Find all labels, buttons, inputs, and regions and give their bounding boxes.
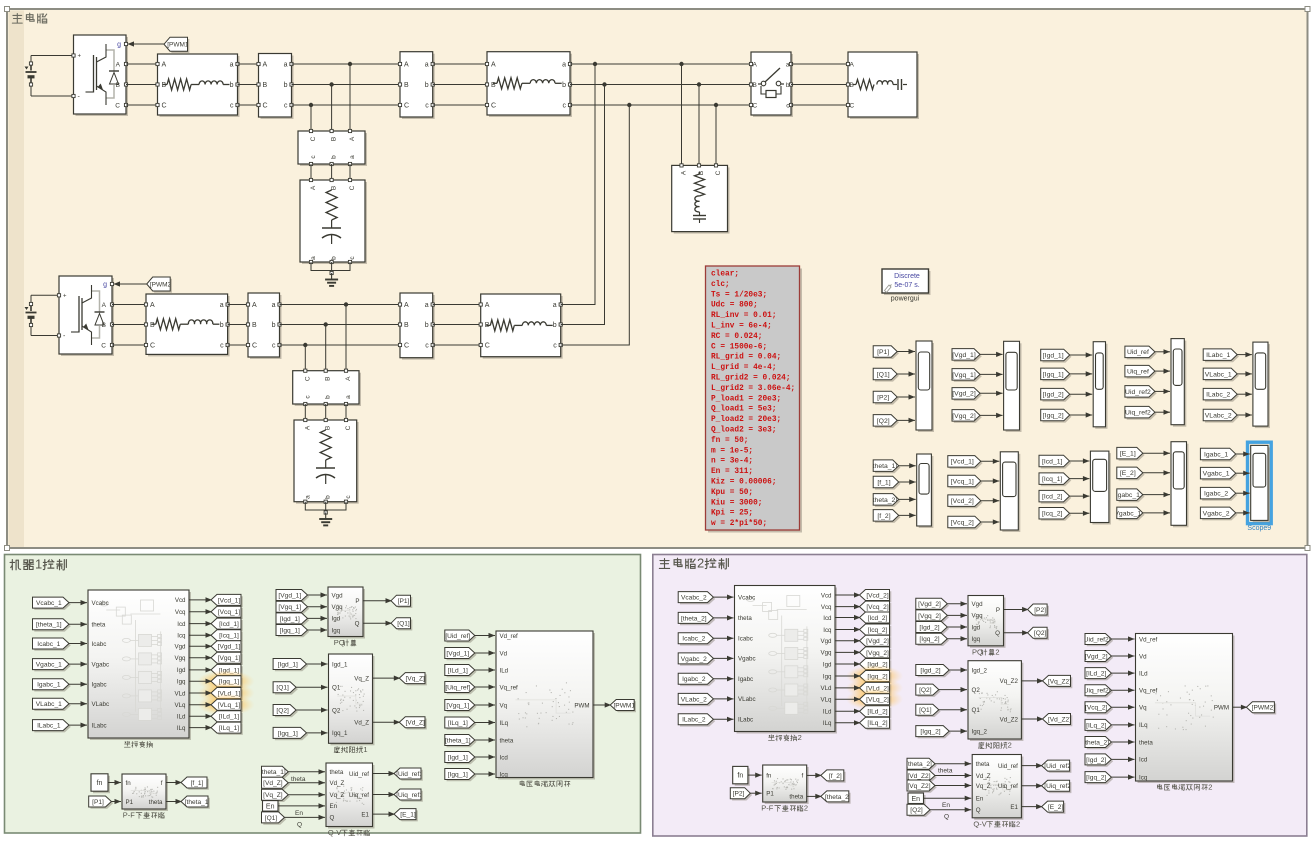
wire [Igd_2] [1111, 758, 1134, 760]
From tag [Q2] [275, 706, 298, 717]
Goto tag [Vq_Z2] [1044, 677, 1072, 688]
From tag VLabc_1 [34, 700, 71, 711]
wire to [Uiq_ref1] [373, 794, 396, 796]
svg-text:[Vq_Z2]: [Vq_Z2] [907, 783, 930, 790]
wire [theta_1] [475, 739, 495, 741]
svg-text:[Vd_Z]: [Vd_Z] [263, 780, 283, 787]
wire [Q2] [296, 709, 327, 711]
svg-text:ILd: ILd [1139, 670, 1148, 677]
svg-text:Vgq: Vgq [174, 655, 186, 662]
svg-text:[Icq_2]: [Icq_2] [1042, 511, 1063, 518]
svg-text:2: 2 [804, 804, 808, 813]
grid equivalent series RLC block [850, 54, 919, 119]
svg-text:[Vq_Z]: [Vq_Z] [405, 676, 425, 683]
wire to [VLd_2] [835, 687, 861, 689]
wire [Vgq_1] to scope [980, 373, 1003, 375]
svg-text:Vd: Vd [500, 650, 508, 657]
svg-text:B: B [331, 186, 338, 190]
Goto tag [ILd_2] [861, 708, 891, 719]
From tag [Vgd_1] [278, 591, 310, 602]
Goto tag [Vcd_1] [213, 596, 243, 607]
svg-text:b: b [325, 395, 332, 399]
svg-text:En: En [295, 810, 303, 817]
svg-text:2: 2 [1008, 741, 1012, 750]
From tag [Igd_2] [918, 666, 951, 677]
svg-text:Igq: Igq [332, 627, 341, 634]
three-phase series RL branch row2 [148, 296, 230, 356]
svg-text:[Vgd_2]: [Vgd_2] [866, 638, 889, 645]
Goto tag [Vcq_2] [861, 603, 891, 614]
From tag Vgabc_1 [34, 660, 71, 671]
svg-text:[ILd_2]: [ILd_2] [1086, 671, 1106, 678]
svg-text:C: C [485, 343, 490, 350]
wire fn [108, 782, 121, 784]
svg-text:VLabc: VLabc [92, 701, 110, 708]
From tag PWM1 [128, 43, 165, 45]
svg-text:RC = 0.024;: RC = 0.024; [711, 333, 762, 341]
svg-text:[Uid_ref]: [Uid_ref] [445, 633, 470, 640]
scope group Load abc [1255, 344, 1270, 428]
Goto tag [P1] [393, 597, 413, 608]
svg-text:b: b [230, 82, 234, 89]
three-phase V-I measurement row2 [250, 295, 282, 359]
svg-text:b: b [272, 322, 276, 329]
svg-text:A: A [150, 302, 155, 309]
svg-text:Vd_Z: Vd_Z [330, 780, 345, 787]
From tag VLabc_1 [1205, 370, 1239, 382]
svg-text:[theta_2]: [theta_2] [906, 761, 932, 768]
wire [Uiq_ref] [475, 686, 495, 688]
wire to [Igq_2] [835, 675, 861, 677]
svg-text:Icd: Icd [823, 615, 832, 622]
wire [Igq_2] to scope [1070, 414, 1093, 416]
From tag [ILq_1] [447, 719, 477, 730]
svg-text:A: A [485, 302, 490, 309]
wire ILabc_2 to scope [1237, 393, 1252, 395]
svg-text:powergui: powergui [891, 296, 920, 303]
wire to [f_2] [807, 774, 822, 776]
From tag [f_1] [875, 478, 901, 490]
From tag [Igq_1] [275, 729, 308, 740]
wire fn2 [748, 774, 762, 776]
wire to [P1] [363, 600, 392, 602]
Goto tag [Vcq_1] [213, 608, 243, 619]
From tag [Q2] [909, 806, 932, 817]
svg-text:B: B [753, 82, 757, 89]
svg-text:Vq_Z: Vq_Z [354, 675, 369, 682]
svg-text:Vq_Z: Vq_Z [976, 783, 991, 790]
svg-text:Vgabc_2: Vgabc_2 [681, 656, 707, 663]
scope group E/abc [1173, 444, 1189, 528]
svg-text:C: C [162, 103, 167, 110]
wire to [Icq_1] [189, 634, 212, 636]
scope group Scope9 [1248, 442, 1272, 523]
wire [Vgd_2] to scope [980, 392, 1003, 394]
svg-text:Q1: Q1 [972, 707, 981, 714]
svg-text:C: C [715, 170, 722, 175]
From tag Vgabc_1 [1202, 469, 1237, 481]
svg-text:Vgd: Vgd [332, 592, 344, 599]
svg-text:C: C [349, 185, 356, 190]
wire [P2] to scope [897, 396, 915, 398]
wire Vgabc_1 [69, 663, 87, 665]
svg-text:En = 311;: En = 311; [711, 468, 753, 476]
svg-text:c: c [563, 103, 567, 110]
svg-text:Igabc_2: Igabc_2 [682, 676, 706, 683]
wire [f_1] to scope [899, 481, 916, 483]
svg-text:[f_1]: [f_1] [191, 780, 204, 787]
svg-text:A: A [850, 62, 855, 69]
svg-text:Igabc: Igabc [738, 676, 753, 683]
wire to [ILq_2] [835, 722, 861, 724]
wire [Q1] [296, 686, 327, 688]
svg-text:ILq: ILq [1139, 722, 1148, 729]
svg-text:clear;: clear; [711, 271, 739, 279]
svg-text:Discrete: Discrete [894, 273, 920, 280]
svg-text:theta: theta [92, 622, 106, 629]
svg-text:b: b [284, 82, 288, 89]
svg-text:ILd: ILd [500, 667, 509, 674]
svg-text:C: C [263, 103, 268, 110]
svg-text:Vq_ref: Vq_ref [500, 684, 519, 691]
svg-text:[PWM1]: [PWM1] [167, 42, 190, 49]
svg-text:Vgq: Vgq [972, 613, 984, 620]
From tag Igabc_1 [1202, 450, 1237, 462]
svg-text:ILq: ILq [823, 720, 832, 727]
svg-text:c: c [425, 103, 429, 110]
Goto tag [VLq_1] [213, 701, 243, 712]
inverter (IGBT bridge) row1 [76, 37, 129, 116]
Goto tag [Uid_ref2] [1043, 762, 1071, 773]
svg-text:[Igq_1]: [Igq_1] [278, 730, 298, 737]
svg-text:a: a [425, 302, 429, 309]
svg-text:[Q1]: [Q1] [276, 685, 289, 692]
svg-text:VLq: VLq [174, 702, 186, 709]
svg-text:Vcabc_1: Vcabc_1 [36, 600, 62, 607]
svg-text:[theta_2]: [theta_2] [871, 497, 898, 504]
svg-text:Vq_ref: Vq_ref [1139, 688, 1158, 695]
panel 主电路2控制 (circuit 2 control area) [653, 555, 1307, 837]
svg-text:ILabc_2: ILabc_2 [682, 717, 706, 724]
From tag [E_1] [1119, 449, 1145, 461]
wire to [PWM2] [1233, 706, 1248, 708]
svg-text:Vgabc_1: Vgabc_1 [36, 662, 62, 669]
From tag [ILd_2] [1087, 669, 1113, 680]
svg-text:[Vgd_2]: [Vgd_2] [952, 391, 976, 398]
wire to [E_2] [1021, 806, 1042, 808]
wire to [Vcq_2] [835, 606, 861, 608]
wire [theta_2] to scope [899, 498, 916, 500]
svg-text:Igq: Igq [823, 673, 832, 680]
From tag [P2] [732, 790, 752, 801]
svg-text:[Q2]: [Q2] [910, 807, 923, 814]
wire Vcabc_1 [69, 602, 87, 604]
wire [theta_1] [288, 771, 325, 773]
wire Uid_ref to scope [1155, 351, 1170, 353]
From tag [Igd_2] [1087, 756, 1113, 767]
svg-text:B: B [850, 82, 854, 89]
svg-text:[E_1]: [E_1] [1120, 451, 1136, 458]
svg-text:1: 1 [363, 745, 367, 754]
svg-text:[theta_2]: [theta_2] [825, 794, 851, 801]
svg-text:2: 2 [798, 733, 802, 742]
svg-text:B: B [162, 82, 167, 89]
svg-text:2: 2 [995, 647, 999, 656]
svg-text:c: c [553, 343, 557, 350]
svg-text:[Igd_2]: [Igd_2] [920, 667, 940, 674]
wire to [Vgd_2] [835, 640, 861, 642]
svg-text:[Vd_Z2]: [Vd_Z2] [1048, 716, 1071, 723]
svg-text:[Igq_2]: [Igq_2] [1043, 412, 1064, 419]
svg-text:[theta_1]: [theta_1] [185, 799, 211, 806]
svg-text:c: c [220, 343, 224, 350]
title 主电路2控制 [659, 559, 669, 569]
wire Vgabc_1 to scope [1236, 472, 1250, 474]
svg-text:A: A [252, 302, 257, 309]
wire DC source row1 to inverter [31, 55, 74, 57]
svg-text:Vq_Z: Vq_Z [330, 792, 345, 799]
svg-text:[Vgq_1]: [Vgq_1] [278, 604, 301, 611]
svg-text:b: b [562, 82, 566, 89]
svg-text:B: B [325, 426, 332, 430]
Goto tag [Igq_1] [213, 678, 243, 689]
From tag Igabc_1 [1119, 491, 1145, 503]
svg-text:[theta_1]: [theta_1] [36, 622, 62, 629]
svg-text:Igabc_2: Igabc_2 [1204, 491, 1228, 498]
svg-text:Udc = 800;: Udc = 800; [711, 302, 758, 310]
wire to [ILd_2] [835, 710, 861, 712]
svg-text:[Q1]: [Q1] [919, 707, 932, 714]
From tag [Igq_2] [1087, 773, 1113, 784]
tap wires down to load measurement row1 [310, 105, 312, 131]
svg-text:C: C [753, 103, 758, 110]
svg-text:Igq: Igq [177, 679, 186, 686]
wires inverter1 to RL branch [126, 63, 158, 65]
svg-text:[theta_2]: [theta_2] [681, 615, 707, 622]
Goto tag [Icq_2] [861, 626, 891, 637]
svg-text:Igabc_1: Igabc_1 [1204, 451, 1228, 458]
wire [theta_1] [69, 623, 87, 625]
From tag [theta_2] [875, 495, 901, 507]
From tag [Vgd_1] [954, 350, 982, 362]
wire Uid_ref2 to scope [1155, 390, 1170, 392]
wire [Vgd_1] [308, 594, 328, 596]
wire Igabc_1 to scope [1236, 453, 1250, 455]
svg-text:[P1]: [P1] [92, 799, 104, 806]
svg-text:C: C [345, 425, 352, 430]
wire ILabc_2 [713, 718, 733, 720]
wire to [Uid_ref1] [373, 773, 396, 775]
Goto tag [ILq_1] [213, 724, 243, 735]
Goto tag [theta_2] [823, 793, 851, 804]
svg-text:[PWM1]: [PWM1] [613, 702, 637, 709]
svg-text:A: A [102, 302, 107, 309]
svg-text:En: En [912, 796, 921, 803]
svg-text:fn: fn [737, 773, 743, 780]
svg-text:[Igd_2]: [Igd_2] [919, 624, 939, 631]
wire to [Vcd_1] [189, 599, 212, 601]
inverter (IGBT bridge) row2 [61, 278, 114, 356]
svg-text:w = 2*pi*50;: w = 2*pi*50; [711, 520, 767, 528]
svg-text:A: A [345, 376, 352, 381]
svg-text:ILq: ILq [177, 725, 186, 732]
wire [Q2] [939, 689, 967, 691]
wire to [Vd_Z2] [1021, 718, 1043, 720]
svg-text:Icabc_1: Icabc_1 [37, 641, 60, 648]
svg-text:C: C [310, 136, 317, 141]
svg-text:C: C [491, 103, 496, 110]
From tag Vgabc_1 [1119, 509, 1145, 520]
load measurement block row2 (rotated) [295, 373, 361, 406]
svg-text:Vd_ref: Vd_ref [1139, 636, 1158, 643]
junction dots row2 feed [593, 62, 597, 66]
From tag [Vgq_2] [954, 411, 982, 423]
From tag Igabc_1 [34, 681, 71, 692]
wire [Vcq_2] [1111, 706, 1134, 708]
wires RL to measurement row2 [228, 304, 248, 306]
svg-text:C: C [850, 103, 855, 110]
Goto tag [Q1] [393, 620, 413, 631]
wire to [ILd_1] [189, 715, 212, 717]
grid RLC icon [853, 84, 856, 86]
svg-text:[E_2]: [E_2] [1120, 470, 1136, 477]
wire Igabc_2 [713, 678, 733, 680]
svg-text:Icq: Icq [177, 633, 186, 640]
svg-text:b: b [553, 322, 557, 329]
From tag [Igq_1] [1043, 370, 1072, 382]
Goto tag [f_2] [823, 772, 846, 783]
scope group Ic dq [1092, 453, 1111, 524]
wire to [VLq_2] [835, 698, 861, 700]
svg-text:[Vd_Z2]: [Vd_Z2] [907, 773, 930, 780]
From tag Icabc_1 [34, 640, 71, 651]
wires meas2 to RL2 row1 [433, 63, 487, 65]
panel 机器1控制 (machine 1 control area) [5, 555, 641, 834]
wires to RC load row2 [304, 404, 306, 420]
svg-text:C: C [150, 343, 155, 350]
svg-text:theta: theta [976, 761, 990, 768]
junction dots load1 taps [348, 62, 352, 66]
svg-text:fn: fn [126, 780, 132, 787]
scope group Vc dq [1002, 454, 1020, 532]
svg-text:Q: Q [944, 814, 949, 821]
svg-text:[VLq_2]: [VLq_2] [866, 697, 889, 704]
ground row2 load [324, 511, 327, 514]
wire to [Icd_2] [835, 617, 861, 619]
svg-text:[ILd_2]: [ILd_2] [867, 709, 887, 716]
svg-text:[P1]: [P1] [398, 598, 410, 605]
wire [P1] [111, 801, 121, 803]
svg-text:Vgd: Vgd [820, 638, 832, 645]
From tag [Igd_1] [275, 660, 308, 671]
From tag [theta_2] [909, 760, 937, 771]
svg-text:[Q1]: [Q1] [877, 371, 890, 378]
svg-text:a: a [284, 62, 288, 69]
svg-text:P1: P1 [126, 799, 134, 806]
svg-text:C: C [304, 376, 311, 381]
From tag ILabc_1 [1205, 351, 1239, 363]
svg-text:f: f [801, 773, 803, 780]
wire Vgabc_1 to scope [1143, 512, 1170, 514]
From tag [Vgq_1] [447, 701, 477, 712]
wire [Igq_1] [308, 629, 328, 631]
wire [Vd_Z2] [935, 775, 971, 777]
From tag Uiq_ref [1127, 367, 1157, 379]
wire to [Igd_2] [835, 663, 861, 665]
wire [Vgq_1] [475, 704, 495, 706]
svg-text:Vcabc_2: Vcabc_2 [681, 595, 707, 602]
wire Igabc_1 to scope [1143, 494, 1170, 496]
svg-text:ILabc: ILabc [738, 717, 753, 724]
From tag [Icd_1] [1041, 457, 1072, 469]
svg-text:[ILq_2]: [ILq_2] [867, 720, 887, 727]
junction dots load taps row2 [344, 302, 348, 306]
svg-text:[Q2]: [Q2] [919, 687, 932, 694]
From tag [Vgq_1] [278, 603, 310, 614]
From tag [Vgd_1] [447, 649, 477, 660]
wire to [Vq_Z2] [1021, 680, 1043, 682]
wire [Vgd_1] to scope [980, 353, 1003, 355]
svg-text:[Icq_2]: [Icq_2] [868, 627, 888, 634]
svg-text:[PWM2]: [PWM2] [150, 281, 173, 288]
svg-text:Q_load1 = 5e3;: Q_load1 = 5e3; [711, 406, 777, 414]
tap wires down to RLC load2 [681, 64, 683, 165]
From tag [P2] [875, 393, 899, 405]
wire [Vgd_2] [1111, 655, 1134, 657]
svg-text:Uiq_ref2: Uiq_ref2 [1125, 410, 1151, 417]
wires meas2 to RL2 row2 [433, 304, 481, 306]
From tag ILabc_1 [34, 721, 71, 732]
svg-text:+: + [78, 54, 82, 60]
wire Uiq_ref2 to scope [1155, 411, 1170, 413]
svg-text:Vcq: Vcq [821, 604, 832, 611]
svg-text:[Vcd_2]: [Vcd_2] [866, 592, 889, 599]
subsystem 坐标变换 [90, 592, 191, 740]
subsystem 电压电流双闭环 [498, 633, 595, 780]
svg-text:En: En [942, 802, 950, 809]
svg-text:C = 1500e-6;: C = 1500e-6; [711, 343, 767, 351]
svg-text:Kiz = 0.00006;: Kiz = 0.00006; [711, 479, 777, 487]
svg-text:Q: Q [297, 821, 302, 828]
wire ILabc_1 [69, 724, 87, 726]
svg-text:Uid_ref: Uid_ref [998, 763, 1018, 770]
svg-text:theta: theta [149, 799, 163, 806]
svg-text:[Igd_1]: [Igd_1] [278, 661, 298, 668]
wire [Icq_2] to scope [1070, 512, 1090, 514]
From tag [Igq_1] [278, 626, 310, 637]
Goto tag [E_2] [1043, 803, 1065, 814]
svg-text:[Q2]: [Q2] [276, 707, 289, 714]
wire [Q2] to scope [897, 419, 915, 421]
svg-text:[Q1]: [Q1] [265, 815, 278, 822]
svg-text:[Vgd_1]: [Vgd_1] [278, 592, 301, 599]
breaker icon [758, 83, 762, 85]
From tag [Uiq_ref] [447, 683, 477, 694]
svg-text:Vd: Vd [1139, 653, 1147, 660]
From tag [Vd_Z] [263, 779, 290, 790]
wire [Q1] to scope [897, 373, 915, 375]
svg-text:c: c [284, 103, 288, 110]
svg-text:Q: Q [995, 630, 1000, 637]
wire VLabc_1 [69, 703, 87, 705]
svg-text:P: P [355, 598, 359, 605]
svg-text:Vd_Z2: Vd_Z2 [1000, 716, 1019, 723]
svg-text:VLd: VLd [820, 685, 832, 692]
svg-text:theta: theta [938, 768, 953, 775]
wire [ILd_2] [1111, 672, 1134, 674]
load measurement block row1 (rotated) [300, 133, 367, 166]
Goto tag [Icd_2] [861, 614, 891, 625]
